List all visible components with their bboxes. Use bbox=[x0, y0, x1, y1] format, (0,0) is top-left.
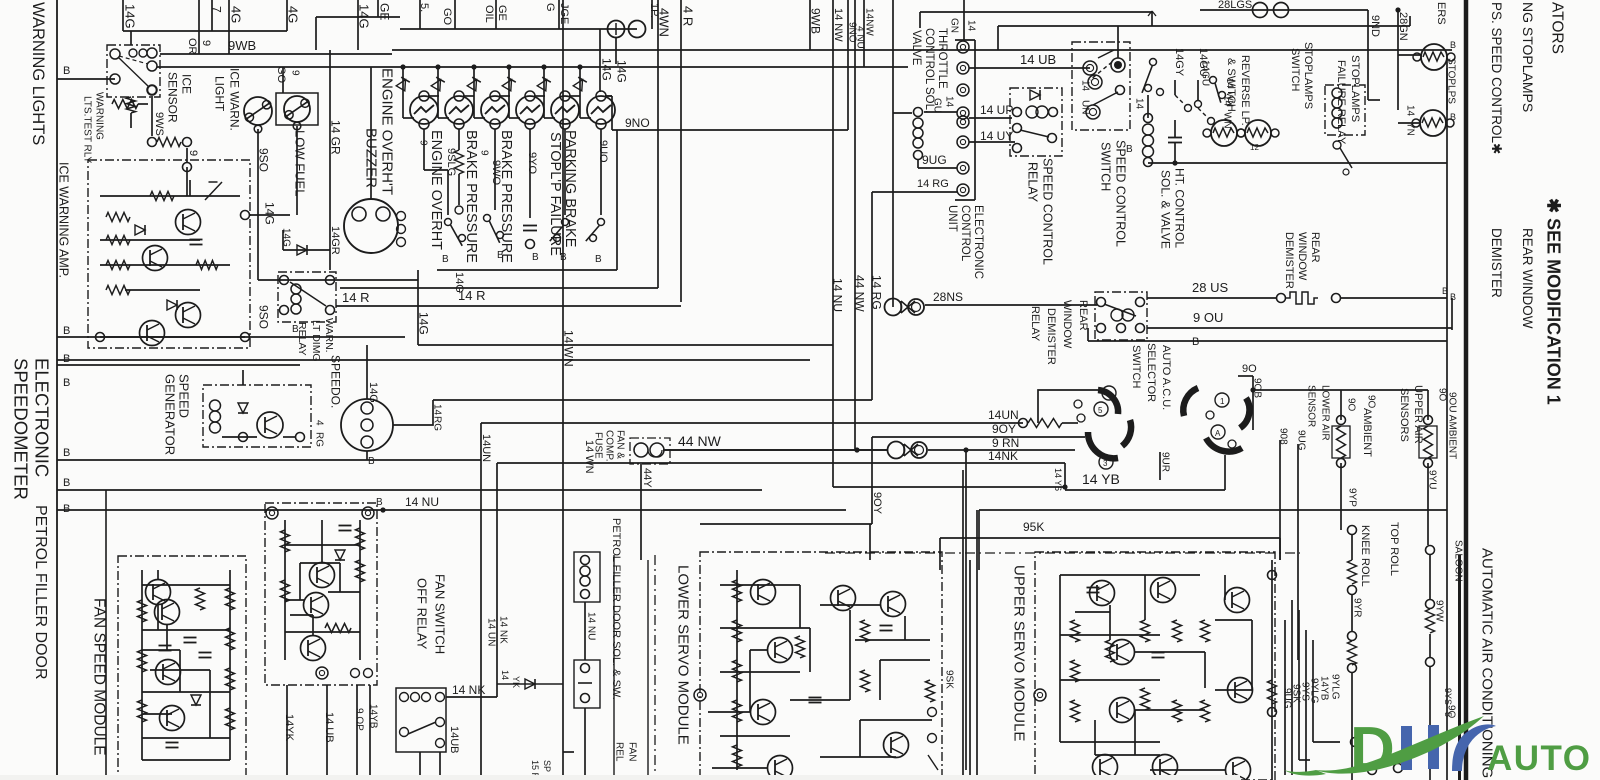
svg-text:NG STOPLAMPS: NG STOPLAMPS bbox=[1520, 2, 1536, 112]
bus B speedo bbox=[57, 364, 300, 366]
buzzer body bbox=[344, 199, 398, 253]
warning lamp 4 diode bbox=[502, 80, 511, 91]
svg-text:4G: 4G bbox=[228, 6, 243, 23]
svg-text:UNIT: UNIT bbox=[946, 205, 958, 232]
svg-text:14: 14 bbox=[1133, 98, 1144, 110]
usm transistor 5 bbox=[1093, 755, 1118, 780]
svg-text:14G: 14G bbox=[615, 60, 629, 83]
svg-text:B: B bbox=[595, 254, 602, 265]
petrol sol box 2 bbox=[574, 660, 600, 708]
svg-text:STOPLAMPS: STOPLAMPS bbox=[1302, 42, 1314, 109]
wire 9SO join bbox=[258, 279, 418, 281]
module box UPPER SERVO MODULE bbox=[1035, 552, 1275, 780]
svg-text:9OU AMBIENT: 9OU AMBIENT bbox=[1446, 392, 1457, 459]
svg-text:9O: 9O bbox=[1436, 388, 1447, 402]
relay coil bbox=[291, 284, 301, 294]
svg-text:AUTO A.C.U.: AUTO A.C.U. bbox=[1160, 345, 1172, 410]
gen coil bbox=[210, 400, 221, 411]
fsm transistor 4 bbox=[160, 706, 185, 731]
amp rail 2 bbox=[100, 239, 200, 241]
svg-text:14 UB: 14 UB bbox=[1020, 52, 1056, 67]
svg-text:ICE WARN.: ICE WARN. bbox=[228, 68, 242, 131]
svg-text:AUTO: AUTO bbox=[1487, 739, 1592, 778]
relay contacts bbox=[110, 49, 120, 59]
svg-text:14: 14 bbox=[500, 670, 510, 680]
wire 14RG ecu bbox=[872, 191, 957, 193]
amp rail 3 bbox=[100, 264, 230, 266]
module box ICE WARNING AMP bbox=[88, 160, 250, 348]
wire 14NK bundle bbox=[497, 462, 1065, 464]
svg-text:9: 9 bbox=[478, 150, 489, 156]
warning lamp 5 bbox=[551, 96, 579, 124]
warning lamp 6 top link bbox=[605, 95, 612, 97]
fan off relay terminals bbox=[400, 693, 409, 702]
usm transistor 9 bbox=[1226, 758, 1251, 780]
ht feed bbox=[1147, 95, 1149, 118]
relay box WARN LT DIMG RELAY bbox=[278, 272, 336, 322]
svg-text:14: 14 bbox=[943, 96, 954, 108]
wire low fuel drop bbox=[296, 126, 298, 215]
wire cluster v4 bbox=[1305, 630, 1307, 775]
fsm cap 4 bbox=[199, 652, 212, 654]
lsm transistor 7 bbox=[884, 733, 909, 758]
selector circled I bbox=[1215, 393, 1229, 407]
svg-text:SENSORS: SENSORS bbox=[1398, 388, 1410, 442]
svg-text:GENERATOR: GENERATOR bbox=[162, 374, 177, 455]
demister element bbox=[1277, 294, 1286, 303]
svg-text:14 NW: 14 NW bbox=[832, 8, 844, 42]
gen transistor bbox=[257, 412, 283, 438]
selector wire top bbox=[1060, 389, 1098, 391]
wire cluster v1 bbox=[1284, 620, 1286, 775]
svg-text:ENGINE OVERHT: ENGINE OVERHT bbox=[428, 130, 444, 250]
svg-text:ATORS: ATORS bbox=[1548, 2, 1565, 54]
svg-text:SALOON: SALOON bbox=[1452, 540, 1463, 582]
svg-text:SPEED CONTROL: SPEED CONTROL bbox=[1041, 158, 1055, 265]
ice sensor element bbox=[148, 138, 157, 147]
warning lamp 5 diode bbox=[537, 80, 546, 91]
ice sensor drop bbox=[186, 148, 188, 162]
svg-text:9NO: 9NO bbox=[625, 116, 650, 130]
usm wire mesh bbox=[1059, 575, 1061, 742]
relay coil bbox=[1026, 106, 1038, 118]
usm resistor 9 bbox=[1173, 620, 1182, 642]
long top bus bbox=[392, 49, 1452, 51]
fsm diode bbox=[191, 695, 201, 705]
wire 14UN drop bbox=[480, 423, 482, 780]
wire cluster v3 bbox=[1298, 610, 1300, 760]
lsm transistor 3 bbox=[751, 700, 776, 725]
fsm wires bbox=[142, 584, 230, 586]
usm transistor 1 bbox=[1090, 581, 1115, 606]
demister relay terminals bbox=[1097, 298, 1106, 307]
wire 9RN bundle bbox=[663, 449, 888, 451]
lsm rail 1 bbox=[736, 570, 738, 770]
svg-text:9WB: 9WB bbox=[809, 8, 823, 34]
wire gen top bbox=[242, 370, 244, 385]
wire 14GR bbox=[329, 100, 331, 270]
svg-text:14: 14 bbox=[1053, 468, 1063, 478]
reverse lamp 1 bbox=[1211, 120, 1237, 146]
fan off relay box bbox=[396, 688, 446, 752]
svg-text:B: B bbox=[63, 325, 70, 337]
wire 14GU bbox=[924, 111, 957, 113]
lsm circles bbox=[928, 708, 937, 717]
amp node tr bbox=[241, 211, 250, 220]
fsm cap 3 bbox=[166, 742, 179, 744]
bus 9WB bbox=[160, 53, 392, 55]
amp resistor 3 bbox=[106, 261, 130, 270]
long vertical 14NU mid bbox=[832, 0, 834, 487]
left border wire bbox=[56, 0, 58, 780]
svg-text:GO: GO bbox=[441, 8, 453, 26]
svg-text:ICE WARNING AMP.: ICE WARNING AMP. bbox=[57, 162, 71, 278]
wire 44NW bbox=[664, 449, 888, 451]
svg-text:A: A bbox=[1215, 429, 1221, 438]
svg-text:7: 7 bbox=[210, 6, 224, 13]
chain x1272 bbox=[1271, 560, 1273, 780]
switch terminal A bbox=[1083, 61, 1097, 75]
fsm resistor 7 bbox=[226, 708, 235, 730]
long vertical 4WN bbox=[657, 0, 659, 288]
warning lamp 5 feed bbox=[541, 64, 546, 69]
wire 14G ecu bbox=[893, 112, 912, 114]
relay box stoplamps failure bbox=[1325, 85, 1365, 135]
svg-text:REAR: REAR bbox=[1309, 232, 1321, 263]
svg-text:STOPLAMPS: STOPLAMPS bbox=[1349, 55, 1361, 122]
usm resistor 3 bbox=[1071, 700, 1080, 722]
svg-text:B: B bbox=[442, 254, 449, 265]
svg-text:UN: UN bbox=[1079, 100, 1090, 114]
ambient sensor bbox=[1424, 416, 1433, 425]
wire 14YB bbox=[833, 486, 1065, 488]
svg-text:14YB: 14YB bbox=[1318, 676, 1329, 701]
warning lamp 6 bbox=[587, 96, 615, 124]
svg-text:14G: 14G bbox=[600, 58, 614, 81]
svg-text:3: 3 bbox=[1103, 459, 1108, 468]
fuse box bbox=[630, 438, 670, 464]
lsm cap 2 bbox=[809, 697, 822, 699]
svg-text:9O: 9O bbox=[1365, 395, 1376, 409]
svg-text:LOWER AIR: LOWER AIR bbox=[1319, 385, 1330, 441]
wire 14NK fan bbox=[446, 696, 497, 698]
speedo feed bbox=[366, 345, 368, 399]
logo letter H bar bbox=[1401, 726, 1412, 770]
buzzer contacts bbox=[397, 212, 406, 221]
warning lamp 1 top link bbox=[428, 95, 439, 97]
amp resistor 4 bbox=[106, 286, 130, 295]
svg-text:14YK: 14YK bbox=[283, 714, 295, 742]
usm resistor 5 bbox=[1141, 688, 1150, 710]
wire 9UO switch bbox=[600, 129, 602, 215]
svg-text:THROTTLE: THROTTLE bbox=[936, 28, 948, 89]
svg-text:PETROL FILLER DOOR SOL. & SW.: PETROL FILLER DOOR SOL. & SW. bbox=[610, 518, 622, 700]
relay box REAR WINDOW DEMISTER RELAY bbox=[1095, 292, 1147, 340]
svg-text:B: B bbox=[63, 353, 70, 365]
svg-text:BRAKE PRESSURE: BRAKE PRESSURE bbox=[498, 130, 514, 263]
svg-text:FAILURE RELAY: FAILURE RELAY bbox=[1335, 60, 1347, 145]
svg-text:GN: GN bbox=[948, 18, 959, 33]
svg-text:14 NU: 14 NU bbox=[831, 278, 845, 312]
svg-text:OIL: OIL bbox=[483, 5, 495, 23]
amp feed wire bbox=[186, 167, 188, 196]
logo green swoosh bbox=[1316, 716, 1484, 774]
ham diode bbox=[335, 550, 345, 560]
wire 14GY bbox=[1174, 80, 1176, 95]
throttle sol bottom bbox=[914, 151, 923, 160]
svg-text:RELAY: RELAY bbox=[1026, 162, 1040, 203]
ham terminal 1 bbox=[266, 507, 278, 519]
bus B 3 bbox=[57, 489, 762, 491]
svg-text:9UG: 9UG bbox=[922, 153, 947, 167]
amp resistor 5 bbox=[150, 192, 174, 201]
warning lamp 2 feed bbox=[435, 64, 440, 69]
switch terminal C bbox=[1086, 105, 1100, 119]
svg-text:DEMISTER: DEMISTER bbox=[1045, 308, 1057, 365]
usm resistor 4 bbox=[1141, 620, 1150, 642]
svg-text:B: B bbox=[1450, 292, 1456, 302]
inline connector top bbox=[608, 21, 625, 38]
usm transistor 4 bbox=[1110, 698, 1135, 723]
wire 9OY drop bbox=[871, 437, 873, 524]
svg-text:1: 1 bbox=[1220, 397, 1225, 406]
wire 14YK diode bbox=[497, 683, 563, 685]
svg-text:9SK: 9SK bbox=[943, 670, 954, 689]
wire stoplamp feeds bbox=[1397, 55, 1399, 110]
svg-text:14YB: 14YB bbox=[367, 704, 378, 729]
lsm transistor 6 bbox=[881, 592, 906, 617]
ham resistor 2 bbox=[356, 528, 365, 550]
svg-text:BRAKE PRESSURE: BRAKE PRESSURE bbox=[463, 130, 479, 263]
ham drops bbox=[286, 685, 288, 780]
module box FAN SPEED MODULE bbox=[118, 556, 246, 780]
selector left arc 3 bbox=[1122, 420, 1131, 446]
relay terminals bbox=[280, 276, 289, 285]
svg-text:B: B bbox=[1126, 144, 1133, 155]
svg-text:9: 9 bbox=[417, 140, 428, 146]
svg-text:REVERSE LP.: REVERSE LP. bbox=[1239, 55, 1251, 126]
amp rail 4 bbox=[125, 289, 200, 291]
wire upper servo feed 1 bbox=[979, 509, 1447, 511]
usm resistor 1 bbox=[1071, 620, 1080, 642]
selector right arc 2 bbox=[1206, 438, 1242, 452]
svg-text:G: G bbox=[544, 3, 556, 12]
selector node b bbox=[1206, 411, 1214, 419]
svg-text:14G: 14G bbox=[453, 272, 465, 293]
wire cluster v5 bbox=[1312, 640, 1314, 742]
warning lamp 4 top link bbox=[534, 95, 545, 97]
svg-text:SWITCH: SWITCH bbox=[1099, 142, 1113, 191]
svg-text:B: B bbox=[63, 503, 70, 515]
wire 14UY bbox=[969, 141, 1015, 143]
buzzer terminals bbox=[352, 207, 366, 221]
svg-text:DEMISTER: DEMISTER bbox=[1489, 228, 1504, 298]
warning lamp 6 diode bbox=[573, 80, 582, 91]
svg-text:9 OU: 9 OU bbox=[1193, 310, 1223, 325]
wire drop x966 bbox=[963, 447, 968, 452]
wire GN stub bbox=[963, 0, 965, 41]
warning lamp 3 diode bbox=[467, 80, 476, 91]
svg-text:9ND: 9ND bbox=[1369, 15, 1381, 37]
logo letter T bar bbox=[1428, 725, 1439, 769]
ht switch bbox=[1150, 59, 1157, 66]
usm resistor 2 bbox=[1071, 660, 1080, 682]
amp resistor 6 bbox=[196, 261, 218, 270]
wire stop lamp join bbox=[1446, 68, 1448, 110]
wire 14G pair down bbox=[599, 29, 601, 92]
svg-text:PETROL FILLER DOOR: PETROL FILLER DOOR bbox=[32, 505, 49, 680]
svg-text:PS. SPEED CONTROL✱: PS. SPEED CONTROL✱ bbox=[1489, 2, 1504, 154]
amp transistor Q3 bbox=[176, 303, 201, 328]
svg-text:RELAY: RELAY bbox=[1029, 306, 1041, 342]
svg-text:9YS: 9YS bbox=[1443, 688, 1453, 705]
wire 14GU r bbox=[1197, 80, 1199, 100]
reverse switch bbox=[1210, 77, 1217, 84]
module bus dashdot bbox=[825, 552, 1300, 554]
wire 14WN line bbox=[340, 287, 658, 289]
selector circled 5 bbox=[1094, 402, 1108, 416]
svg-text:SPEED: SPEED bbox=[176, 374, 191, 418]
svg-text:COMP.: COMP. bbox=[603, 430, 614, 462]
svg-text:9 RN: 9 RN bbox=[992, 436, 1019, 450]
svg-text:& SWITCH: & SWITCH bbox=[1225, 58, 1237, 112]
wire 14YB sel bbox=[1065, 489, 1225, 491]
switch arm bbox=[1098, 50, 1114, 58]
svg-text:B: B bbox=[63, 447, 70, 459]
svg-text:WARNING: WARNING bbox=[93, 92, 104, 140]
lsm transistor 4 bbox=[768, 756, 793, 780]
gen diode bbox=[238, 403, 248, 413]
amp rail top bbox=[100, 195, 240, 197]
svg-text:9O: 9O bbox=[1242, 363, 1257, 375]
wire 9O sel bbox=[1238, 375, 1253, 377]
warning lamp 4 feed bbox=[506, 64, 511, 69]
fsm resistor 6 bbox=[226, 668, 235, 690]
svg-text:14GR: 14GR bbox=[329, 226, 341, 255]
svg-text:ICE: ICE bbox=[180, 74, 194, 94]
svg-text:LOWER SERVO MODULE: LOWER SERVO MODULE bbox=[675, 565, 692, 745]
ham transistor 3 bbox=[301, 636, 326, 661]
selector right arc 3 bbox=[1240, 398, 1249, 428]
svg-text:✱ SEE MODIFICATION 1: ✱ SEE MODIFICATION 1 bbox=[1544, 198, 1564, 405]
wire 14RG bbox=[433, 399, 872, 401]
svg-text:SELECTOR: SELECTOR bbox=[1145, 343, 1157, 402]
wire B speedo down bbox=[366, 451, 368, 460]
svg-text:SPEEDO.: SPEEDO. bbox=[329, 355, 343, 408]
svg-text:14 WN: 14 WN bbox=[562, 330, 576, 367]
svg-text:ELECTRONIC: ELECTRONIC bbox=[31, 358, 52, 477]
ham resistor 1 bbox=[281, 530, 290, 552]
svg-text:OR: OR bbox=[186, 38, 198, 55]
amp cap bbox=[190, 239, 203, 241]
long vertical 4R bbox=[680, 0, 682, 302]
wire stub 7 bbox=[211, 0, 213, 31]
svg-text:B: B bbox=[63, 377, 70, 389]
ham resistor 4 bbox=[281, 580, 290, 602]
svg-text:4: 4 bbox=[313, 420, 324, 426]
lamp row right hook bbox=[611, 96, 613, 130]
fsm resistor 4 bbox=[226, 588, 235, 610]
svg-text:9O: 9O bbox=[1345, 398, 1356, 412]
svg-text:ENGINE OVERH'T: ENGINE OVERH'T bbox=[379, 68, 396, 195]
demister relay arm bbox=[1104, 304, 1136, 316]
svg-text:9YO: 9YO bbox=[526, 152, 538, 174]
svg-text:GE: GE bbox=[496, 5, 508, 21]
svg-text:14G: 14G bbox=[417, 312, 431, 335]
module boundary dashdot bbox=[654, 555, 656, 780]
svg-text:WARNING LIGHTS: WARNING LIGHTS bbox=[29, 2, 47, 145]
warning lamp 5 top link bbox=[569, 95, 580, 97]
speedo terminals bbox=[361, 402, 373, 414]
throttle sol node bbox=[914, 108, 923, 117]
svg-text:REAR WINDOW: REAR WINDOW bbox=[1520, 228, 1535, 329]
wire b bus ht bbox=[1148, 162, 1447, 164]
svg-text:908: 908 bbox=[1277, 428, 1288, 445]
svg-text:UPPER AIR: UPPER AIR bbox=[1412, 385, 1424, 444]
lsm transistor 1 bbox=[751, 580, 776, 605]
svg-text:B: B bbox=[1450, 40, 1456, 50]
fsm resistor 1 bbox=[138, 600, 147, 622]
svg-text:FAN SPEED MODULE: FAN SPEED MODULE bbox=[90, 598, 107, 756]
svg-text:12: 12 bbox=[1250, 143, 1259, 152]
fan off relay arm bbox=[436, 718, 445, 727]
wire 28NS bbox=[925, 304, 1097, 306]
svg-text:14G: 14G bbox=[280, 228, 291, 247]
warning lamp 1 bbox=[410, 96, 438, 124]
petrol sol coil 2 bbox=[581, 664, 590, 673]
usm resistor 10 bbox=[1173, 700, 1182, 722]
amp rail bottom bbox=[100, 336, 245, 338]
fsm wire mesh bbox=[157, 604, 159, 630]
ham wires bbox=[285, 544, 360, 546]
svg-text:9OY: 9OY bbox=[871, 492, 883, 515]
wire 28US to border bbox=[1340, 297, 1447, 299]
lsm resistor 7 bbox=[796, 636, 805, 658]
sw top wire bbox=[998, 25, 1410, 27]
svg-text:FAN &: FAN & bbox=[614, 430, 625, 459]
wire 9SO ice lamp bbox=[257, 129, 259, 200]
usm resistor 7 bbox=[1201, 700, 1210, 722]
ht cap bbox=[1168, 137, 1182, 139]
right thick border lower segment bbox=[1458, 555, 1461, 780]
selector right arc 1 bbox=[1183, 388, 1198, 416]
svg-text:B: B bbox=[1450, 112, 1456, 122]
wire stub 4G b bbox=[286, 0, 288, 31]
warning lamp 3 feed bbox=[471, 64, 476, 69]
svg-text:5.: 5. bbox=[418, 3, 430, 12]
stop lamp 2 bbox=[1420, 110, 1446, 136]
usm transistor 6 bbox=[1153, 755, 1178, 780]
wire sensor verticals bbox=[1340, 463, 1342, 530]
fsm transistor 1 bbox=[146, 580, 171, 605]
svg-text:9UG: 9UG bbox=[1295, 430, 1306, 451]
svg-text:9YLG: 9YLG bbox=[1329, 674, 1340, 700]
wire 9SO down bbox=[257, 200, 259, 280]
lsm terminal bbox=[694, 689, 706, 701]
svg-text:SOL. & VALVE: SOL. & VALVE bbox=[1159, 170, 1173, 249]
svg-text:5: 5 bbox=[1098, 406, 1103, 415]
fsm cap 2 bbox=[184, 637, 197, 639]
usm wires bbox=[1060, 574, 1200, 576]
selector node a bbox=[1074, 400, 1082, 408]
lsm wire mesh bbox=[750, 649, 768, 651]
wire 9UR bbox=[1159, 452, 1161, 480]
lsm transistor 2 bbox=[768, 638, 793, 663]
ice sensor resistor bbox=[112, 100, 138, 109]
switch link bbox=[1093, 92, 1118, 105]
wire stub 14G b bbox=[357, 0, 359, 50]
usm transistor 7 bbox=[1225, 588, 1250, 613]
